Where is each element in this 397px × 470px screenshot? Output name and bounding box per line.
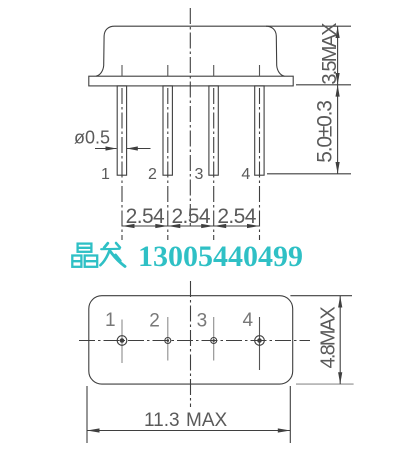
svg-text:2: 2 [149, 311, 160, 332]
11.3 dimension line [87, 430, 290, 432]
pad 2 center dot [167, 339, 170, 342]
arrow right at pin1 left edge [106, 146, 117, 150]
svg-text:1: 1 [105, 310, 116, 331]
svg-text:1: 1 [101, 166, 110, 183]
pad 3 tick [213, 317, 215, 361]
arrows at 2.54 line pin3 [201, 224, 214, 228]
pad 1 circle [117, 336, 127, 346]
arrow up 4.8MAX [338, 296, 342, 308]
pad 1 tick [121, 320, 123, 364]
svg-text:4: 4 [243, 310, 254, 331]
3.5MAX bottom extension line [296, 84, 351, 86]
5.0 dimension line [337, 85, 339, 174]
svg-text:13005440499: 13005440499 [138, 240, 303, 273]
11.3 left extension line [86, 386, 88, 443]
pad 4 center dot [257, 338, 262, 343]
watermark character fa [100, 243, 125, 266]
pin 4 centerline [259, 88, 261, 240]
4.8MAX dimension line [339, 296, 341, 384]
svg-text:2.54: 2.54 [171, 205, 210, 228]
arrow down 4.8MAX [338, 372, 342, 384]
svg-text:4: 4 [241, 166, 250, 183]
arrow right 11.3 [278, 428, 291, 432]
arrow right at 2.54 line pin4 [247, 224, 260, 228]
svg-text:3.5MAX: 3.5MAX [319, 23, 341, 85]
side view vertical centerline [189, 8, 191, 227]
pin 1 centerline [121, 88, 123, 240]
svg-text:3: 3 [197, 311, 208, 332]
pin 3 stub above flange [213, 65, 215, 76]
can outline (side view) [96, 26, 284, 76]
svg-text:MAX: MAX [186, 410, 228, 431]
svg-text:2: 2 [148, 166, 157, 183]
package outline (bottom view rounded rect) [89, 296, 293, 384]
bottom view horizontal centerline [79, 340, 310, 342]
svg-text:5.0±0.3: 5.0±0.3 [313, 101, 336, 163]
3.5MAX top extension line [266, 25, 351, 27]
svg-text:3: 3 [195, 166, 204, 183]
pad 4 tick [259, 317, 261, 370]
pin length extension line [267, 173, 351, 175]
arrows at 2.54 line pin2 [155, 224, 168, 228]
svg-text:ø0.5: ø0.5 [74, 128, 110, 148]
pin 3 centerline [213, 88, 215, 240]
diameter 0.5 leader arrows [95, 148, 117, 150]
2.54 dimension line [122, 225, 260, 227]
pin 2 (side view) [163, 86, 172, 175]
pin 4 (side view) [255, 86, 264, 175]
pin 1 (side view) [117, 86, 126, 175]
arrow left at 2.54 line pin1 [122, 224, 135, 228]
pad 1 center dot [120, 338, 125, 343]
svg-text:4.8MAX: 4.8MAX [318, 307, 340, 369]
arrow down 3.5MAX [336, 73, 340, 85]
4.8MAX bottom extension line [296, 383, 354, 385]
11.3 right extension line [289, 386, 291, 443]
bottom view vertical centerline [190, 281, 192, 407]
pad 3 circle [211, 338, 217, 344]
flange (base plate) [89, 76, 293, 86]
arrow up 5.0 [336, 85, 340, 97]
pin 1 stub above flange [121, 65, 123, 76]
pad 2 tick [167, 317, 169, 361]
4.8MAX top extension line [290, 295, 352, 297]
pin 4 stub above flange [259, 65, 261, 76]
pad 4 circle [255, 336, 265, 346]
pad 2 circle [165, 338, 171, 344]
arrow left at pin1 right edge [127, 146, 138, 150]
pin 2 centerline [167, 88, 169, 240]
svg-text:2.54: 2.54 [126, 205, 165, 228]
pad 3 center dot [212, 339, 215, 342]
arrow up 3.5MAX [336, 26, 340, 38]
pin 2 stub above flange [167, 65, 169, 76]
arrow down 5.0 [336, 162, 340, 174]
3.5MAX dimension line [337, 26, 339, 85]
svg-text:11.3: 11.3 [144, 410, 180, 431]
svg-text:2.54: 2.54 [217, 205, 256, 228]
pin 3 (side view) [209, 86, 218, 175]
watermark character jing (three suns) [72, 244, 97, 267]
arrow left 11.3 [87, 428, 100, 432]
